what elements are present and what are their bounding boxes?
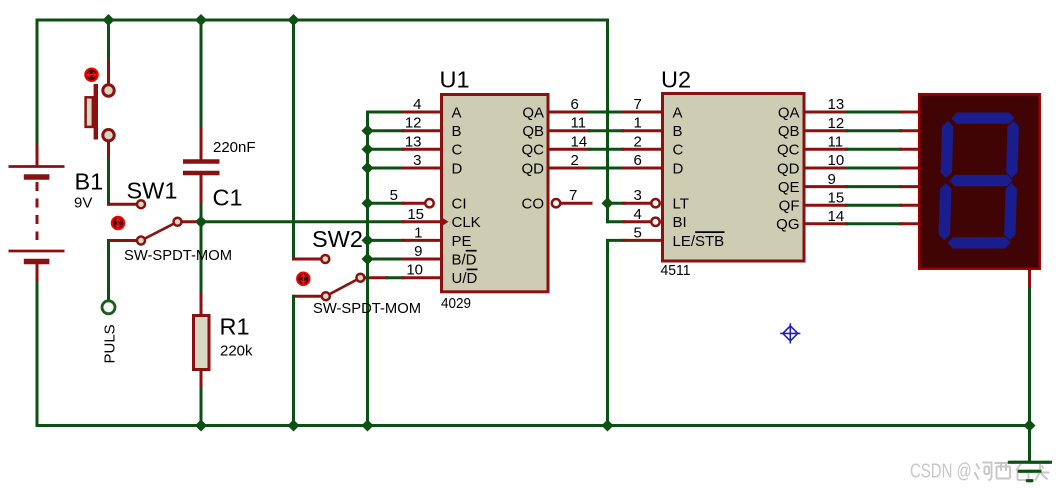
wire U2 QD to display <box>806 167 847 170</box>
svg-text:14: 14 <box>571 133 588 150</box>
wire U1 QC to U2 C <box>550 148 590 151</box>
svg-text:3: 3 <box>413 152 421 169</box>
SW2 throw contact bottom <box>322 292 330 300</box>
U2 LT bubble <box>651 199 659 207</box>
node junction SW1/C1/R1/CLK <box>196 217 207 228</box>
wire U1 input row 3 <box>368 167 404 170</box>
svg-text:SW-SPDT-MOM: SW-SPDT-MOM <box>124 247 232 264</box>
op-amp U1 body <box>442 95 549 292</box>
svg-text:7: 7 <box>634 96 642 113</box>
svg-text:2: 2 <box>571 152 579 169</box>
svg-text:LT: LT <box>673 196 689 213</box>
svg-text:CO: CO <box>522 196 545 213</box>
SW2 pole contact <box>356 274 364 282</box>
origin marker <box>781 324 800 343</box>
wire U2 QA to display <box>806 111 847 114</box>
resistor R1 <box>194 316 210 370</box>
wire U1 B/D pin <box>368 258 404 261</box>
svg-text:C: C <box>673 142 684 159</box>
SW1 pole contact <box>174 218 182 226</box>
svg-text:9: 9 <box>414 243 422 260</box>
svg-text:CLK: CLK <box>452 214 481 231</box>
wire SW1 pole to CLK node <box>182 220 201 223</box>
wire U1 input row 4 <box>368 111 404 114</box>
U1 CI bubble <box>425 199 433 207</box>
svg-text:QB: QB <box>522 123 544 140</box>
wire U2 LE/STB to ground rail <box>608 240 625 425</box>
overline U1 U/D <box>467 268 478 270</box>
svg-text:LE/STB: LE/STB <box>673 233 725 250</box>
svg-text:6: 6 <box>634 152 642 169</box>
wire U1 input row 12 <box>368 129 404 132</box>
svg-text:B/D: B/D <box>452 251 477 268</box>
7-segment display body <box>919 94 1039 269</box>
svg-text:15: 15 <box>407 206 424 223</box>
actuator marker (SW2) <box>297 273 309 285</box>
svg-text:U/D: U/D <box>452 270 478 287</box>
svg-text:4: 4 <box>413 96 421 113</box>
wire LT branch <box>608 202 625 205</box>
svg-text:D: D <box>673 160 684 177</box>
node bus junction <box>362 163 373 174</box>
wire bottom ground rail <box>37 424 1030 427</box>
wire U2 QC to display <box>806 148 847 151</box>
node LE ground junction <box>602 420 613 431</box>
node display ground junction <box>1024 420 1035 431</box>
svg-text:7: 7 <box>569 187 577 204</box>
node top rail junction at SW2 branch <box>288 15 299 26</box>
overline U2 STB <box>695 231 724 233</box>
wire SW2 upper throw to top rail <box>292 20 295 259</box>
display segment mid <box>949 175 1013 186</box>
svg-text:5: 5 <box>390 187 398 204</box>
node bus junction <box>362 144 373 155</box>
wire U1 QB to U2 B <box>550 129 590 132</box>
node top rail junction at button branch <box>103 15 114 26</box>
svg-text:R1: R1 <box>220 314 250 340</box>
wire SW1 lower throw to PULS terminal <box>109 239 138 242</box>
wire display common to ground (overlay) <box>1009 440 1050 481</box>
svg-text:9V: 9V <box>74 195 92 212</box>
svg-text:PULS: PULS <box>102 324 119 363</box>
display segment top <box>951 113 1015 124</box>
wire U1 QA to U2 A <box>550 111 590 114</box>
svg-text:12: 12 <box>828 115 845 132</box>
U1 CO bubble <box>552 199 560 207</box>
overline U1 B/D <box>466 250 477 252</box>
svg-text:B: B <box>452 123 462 140</box>
svg-text:QE: QE <box>778 179 800 196</box>
svg-text:5: 5 <box>634 224 642 241</box>
node SW2 ground junction <box>288 420 299 431</box>
wire U1 CI pin <box>368 202 404 205</box>
node bus junction PE <box>362 235 373 246</box>
push button terminal bottom <box>103 130 114 141</box>
capacitor C1 <box>183 159 220 164</box>
ground <box>1009 461 1050 464</box>
wire U2 QG to display <box>806 222 847 225</box>
wire U1 PE pin <box>368 239 404 242</box>
svg-text:12: 12 <box>405 115 422 132</box>
svg-text:1: 1 <box>414 224 422 241</box>
switch SW2 lever <box>326 278 361 297</box>
node bus ground junction <box>362 420 373 431</box>
U1 CLK chevron <box>441 217 449 227</box>
wire SW2 pole to U1 U/D pin <box>364 276 387 279</box>
svg-text:11: 11 <box>571 115 587 132</box>
svg-text:QC: QC <box>777 142 800 159</box>
svg-text:C1: C1 <box>213 185 243 211</box>
wire button branch from top rail <box>107 20 110 62</box>
display segment tl <box>940 121 953 178</box>
svg-text:3: 3 <box>634 187 642 204</box>
op-amp U2 body <box>663 94 805 262</box>
svg-text:QG: QG <box>776 216 799 233</box>
actuator marker (SW1) <box>112 217 124 229</box>
ground (overlay) <box>1009 461 1050 464</box>
SW2 throw contact top <box>321 255 329 263</box>
wire top power rail <box>37 20 608 146</box>
svg-text:13: 13 <box>405 133 422 150</box>
svg-text:4: 4 <box>634 206 642 223</box>
display segment tr <box>1006 121 1019 178</box>
wire U1 CO output (unconnected) <box>561 202 591 205</box>
svg-text:SW2: SW2 <box>312 226 363 252</box>
svg-text:14: 14 <box>828 208 845 225</box>
svg-text:SW1: SW1 <box>127 178 178 204</box>
push button terminal top <box>103 85 114 96</box>
svg-text:6: 6 <box>571 96 579 113</box>
display segment bot <box>947 237 1011 248</box>
switch SW1 lever <box>141 222 178 241</box>
svg-text:9: 9 <box>828 171 836 188</box>
svg-text:4029: 4029 <box>441 295 471 312</box>
svg-text:A: A <box>673 104 683 121</box>
wire U2 QB to display <box>806 129 847 132</box>
U2 BI bubble <box>651 218 659 226</box>
wire U2 QE to display <box>806 185 847 188</box>
svg-text:QD: QD <box>777 160 800 177</box>
node bus junction <box>362 125 373 136</box>
svg-text:220k: 220k <box>220 343 253 360</box>
wire button to SW1 throw <box>107 142 110 160</box>
display segment bl <box>938 183 951 240</box>
svg-text:QA: QA <box>522 104 544 121</box>
svg-text:BI: BI <box>673 214 687 231</box>
node LT junction <box>602 198 613 209</box>
wire top rail drop to U2 LT/BI <box>606 20 609 222</box>
node bus junction B/D <box>362 254 373 265</box>
svg-text:A: A <box>452 104 462 121</box>
node R1 ground junction <box>196 420 207 431</box>
SW1 throw contact top <box>137 200 145 208</box>
svg-text:QF: QF <box>779 198 800 215</box>
svg-text:QB: QB <box>778 123 800 140</box>
svg-text:CI: CI <box>452 196 467 213</box>
svg-text:U2: U2 <box>661 67 691 93</box>
wire C1 branch from top rail <box>200 20 203 129</box>
svg-text:U1: U1 <box>440 67 470 93</box>
wire U1 input bus to ground rail <box>366 112 369 426</box>
svg-text:10: 10 <box>406 262 423 279</box>
svg-text:CSDN @: CSDN @ <box>910 459 972 482</box>
svg-text:QA: QA <box>778 104 800 121</box>
svg-text:QC: QC <box>522 142 545 159</box>
svg-text:PE: PE <box>452 233 472 250</box>
svg-text:C: C <box>452 142 463 159</box>
svg-text:SW-SPDT-MOM: SW-SPDT-MOM <box>313 300 421 317</box>
svg-text:B: B <box>673 123 683 140</box>
display segment br <box>1004 183 1017 240</box>
svg-text:10: 10 <box>828 152 845 169</box>
svg-text:13: 13 <box>828 96 845 113</box>
wire U1 input row 13 <box>368 148 404 151</box>
svg-text:D: D <box>452 160 463 177</box>
wire CLK net to U1 CLK pin <box>201 220 403 223</box>
wire R1 to ground rail <box>200 294 203 314</box>
svg-text:220nF: 220nF <box>213 139 256 156</box>
svg-text:11: 11 <box>828 134 844 151</box>
svg-text:B1: B1 <box>75 169 104 195</box>
wire display common to ground <box>1028 270 1031 289</box>
svg-text:2: 2 <box>634 133 642 150</box>
wire SW2 lower throw to ground rail <box>294 295 322 298</box>
wire C1 to CLK node <box>200 176 203 206</box>
wire U1 QD to U2 D <box>550 167 590 170</box>
SW1 throw contact bottom <box>137 237 145 245</box>
svg-text:15: 15 <box>828 189 845 206</box>
actuator marker (button) <box>85 69 97 81</box>
node top rail junction at C1 branch <box>196 15 207 26</box>
svg-text:1: 1 <box>634 115 642 132</box>
push button plunger <box>94 84 98 140</box>
battery B1 <box>36 146 39 165</box>
node bus junction CI <box>362 198 373 209</box>
terminal PULS <box>102 301 115 314</box>
wire U2 QF to display <box>806 204 847 207</box>
svg-text:4511: 4511 <box>661 262 691 279</box>
watermark <box>910 459 972 482</box>
svg-text:QD: QD <box>522 160 545 177</box>
